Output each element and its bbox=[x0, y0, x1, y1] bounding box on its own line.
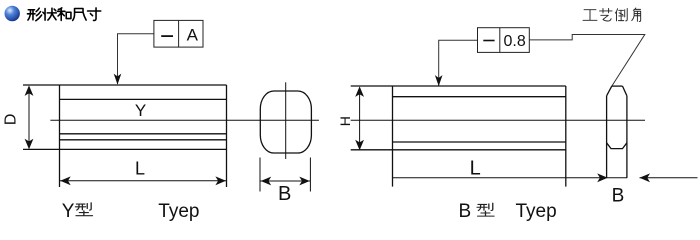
svg-text:B: B bbox=[278, 183, 291, 205]
svg-text:D: D bbox=[2, 114, 19, 126]
svg-text:A: A bbox=[187, 25, 199, 44]
svg-text:L: L bbox=[470, 157, 481, 179]
svg-text:B: B bbox=[612, 186, 625, 207]
svg-text:Y: Y bbox=[135, 101, 146, 120]
svg-text:H: H bbox=[337, 116, 353, 126]
svg-text:Tyep: Tyep bbox=[158, 201, 199, 222]
svg-text:0.8: 0.8 bbox=[503, 33, 525, 50]
svg-text:Tyep: Tyep bbox=[516, 201, 557, 222]
svg-text:B: B bbox=[459, 201, 472, 222]
svg-text:Y: Y bbox=[62, 201, 75, 222]
svg-text:L: L bbox=[135, 159, 145, 179]
